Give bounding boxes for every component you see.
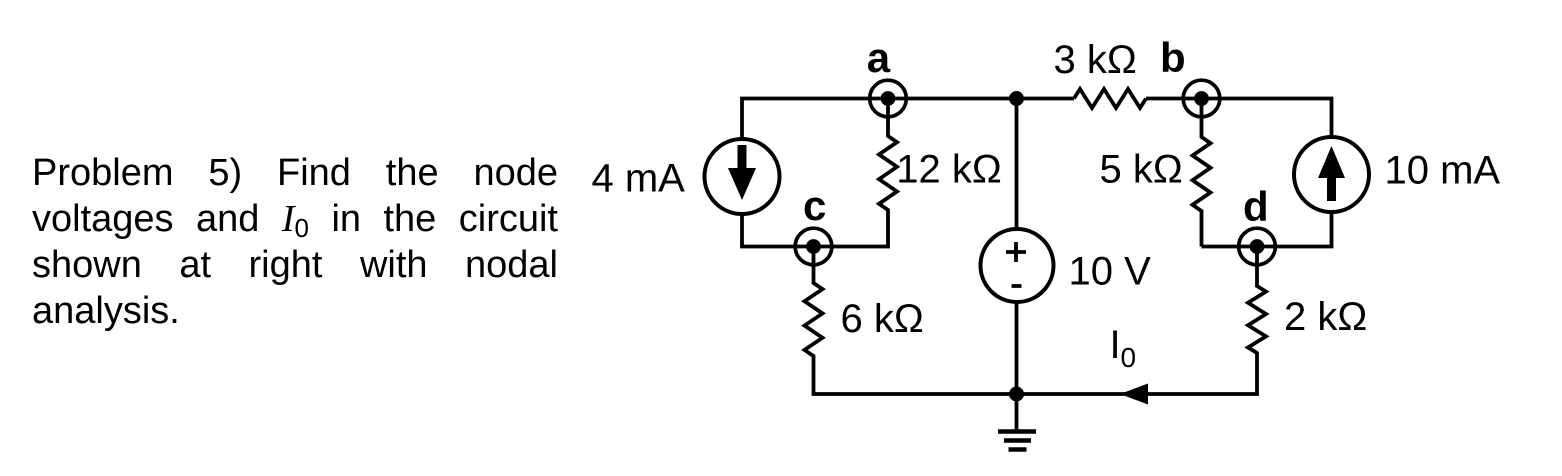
svg-text:0: 0 bbox=[1121, 342, 1137, 373]
svg-text:10 V: 10 V bbox=[1069, 250, 1152, 294]
svg-text:d: d bbox=[1243, 183, 1269, 230]
svg-text:I: I bbox=[1110, 323, 1121, 367]
svg-text:12 kΩ: 12 kΩ bbox=[896, 148, 1002, 192]
svg-text:10 mA: 10 mA bbox=[1385, 149, 1501, 193]
svg-text:4 mA: 4 mA bbox=[592, 157, 686, 201]
svg-text:b: b bbox=[1160, 34, 1186, 81]
svg-text:a: a bbox=[867, 34, 891, 81]
svg-text:3 kΩ: 3 kΩ bbox=[1054, 38, 1137, 82]
svg-text:2 kΩ: 2 kΩ bbox=[1284, 295, 1367, 339]
svg-text:c: c bbox=[803, 182, 826, 229]
svg-text:5 kΩ: 5 kΩ bbox=[1100, 147, 1183, 191]
svg-text:6 kΩ: 6 kΩ bbox=[841, 297, 924, 341]
